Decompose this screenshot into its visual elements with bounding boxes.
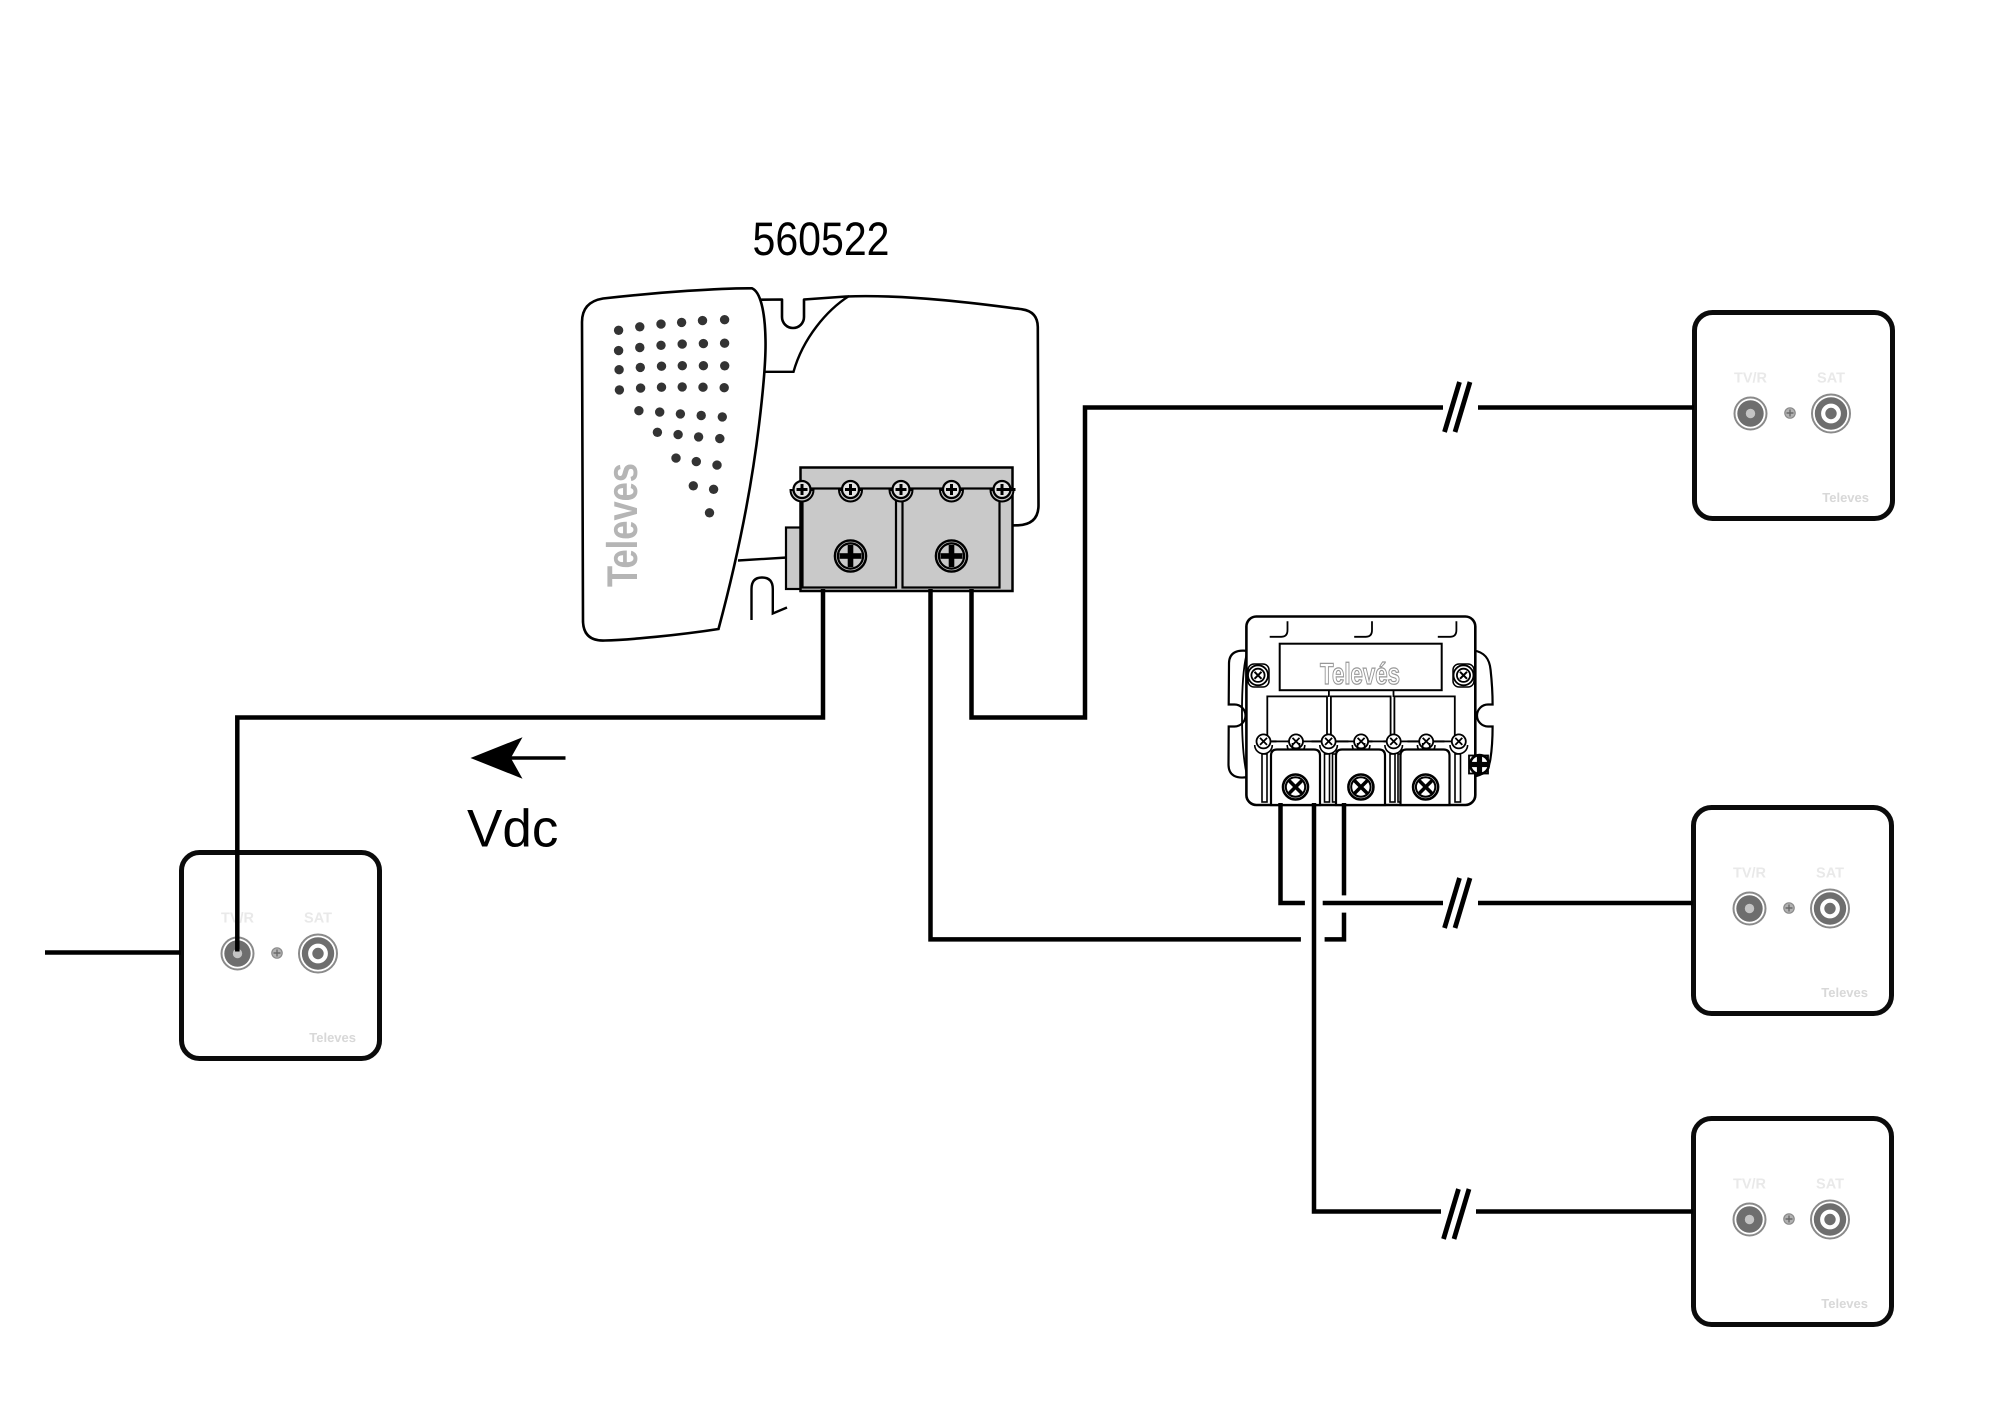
splitter connector fins	[1262, 754, 1461, 802]
cable break mark middle	[1445, 878, 1471, 928]
arrow Vdc direction	[471, 737, 566, 778]
wire splitter input drop	[1342, 803, 1347, 895]
splitter compartments	[1267, 696, 1455, 741]
wire amp output3 up to outlet top right	[972, 408, 1444, 718]
svg-text:Televes: Televes	[599, 463, 647, 587]
outlet bottom right	[1694, 1119, 1892, 1325]
splitter label plate	[1280, 644, 1442, 691]
svg-text:560522: 560522	[753, 212, 890, 265]
amplifier bottom mounting tab	[738, 558, 787, 621]
svg-text:Televés: Televés	[1320, 658, 1400, 691]
outlet middle right	[1694, 808, 1892, 1014]
amplifier terminal block	[786, 468, 1013, 592]
outlet top right	[1695, 313, 1893, 519]
wire into outlet middle right	[1478, 901, 1693, 906]
wire into outlet bottom right	[1476, 1209, 1693, 1214]
splitter top tabs	[1270, 621, 1457, 637]
svg-text:Vdc: Vdc	[467, 800, 558, 859]
wire amp output1 down-left into left outlet TV/R	[237, 589, 823, 952]
splitter side plus screw	[1469, 755, 1489, 774]
splitter	[1229, 617, 1493, 806]
splitter left wing	[1229, 651, 1249, 778]
amplifier U1 front cover	[582, 288, 766, 640]
splitter body	[1246, 617, 1475, 806]
splitter F-connector screws	[1283, 775, 1438, 800]
cable break mark top	[1445, 382, 1471, 432]
wire toward outlet middle right	[1323, 901, 1443, 906]
wire into outlet top right	[1478, 405, 1694, 410]
wire splitter out2 down to outlet bottom right	[1314, 803, 1441, 1212]
splitter right wing	[1474, 650, 1493, 776]
splitter dashed terminal line	[1264, 740, 1459, 742]
cable break mark bottom	[1444, 1189, 1470, 1239]
splitter connector blocks	[1271, 750, 1450, 806]
wire corner joining splitter input	[1325, 913, 1344, 940]
splitter connector necks	[1293, 743, 1430, 750]
wire splitter out1	[1281, 803, 1305, 903]
amplifier U1 back body	[761, 296, 1039, 526]
outlet left	[182, 853, 380, 1059]
splitter corner screw right	[1453, 664, 1474, 687]
wire feed into left outlet	[45, 950, 181, 955]
splitter terminal screws row	[1255, 734, 1468, 753]
splitter corner screw left	[1248, 664, 1269, 687]
amplifier ventilation dots	[614, 315, 730, 518]
terminal screws small	[791, 481, 1016, 502]
terminal screws big	[835, 540, 967, 571]
wire amp output2 right toward splitter	[931, 589, 1301, 939]
